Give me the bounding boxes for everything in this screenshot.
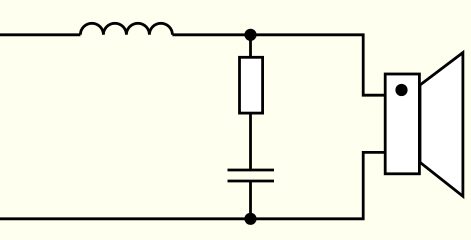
wire capacitor bottom stub bbox=[249, 181, 252, 219]
speaker LS1 body bbox=[385, 74, 419, 174]
wire bottom rail to speaker feed bbox=[0, 152, 386, 218]
speaker polarity dot bbox=[395, 84, 407, 96]
resistor R1 bbox=[240, 57, 263, 113]
node junction top bbox=[244, 29, 256, 41]
wire resistor to capacitor bbox=[249, 113, 252, 170]
speaker LS1 cone bbox=[420, 53, 463, 197]
wire resistor top stub bbox=[249, 35, 252, 58]
capacitor C1 bbox=[228, 170, 275, 181]
wire top-left segment bbox=[0, 33, 80, 36]
node junction bottom bbox=[244, 213, 256, 225]
wire top from inductor to speaker feed bbox=[172, 35, 386, 95]
inductor L1 bbox=[80, 23, 172, 34]
